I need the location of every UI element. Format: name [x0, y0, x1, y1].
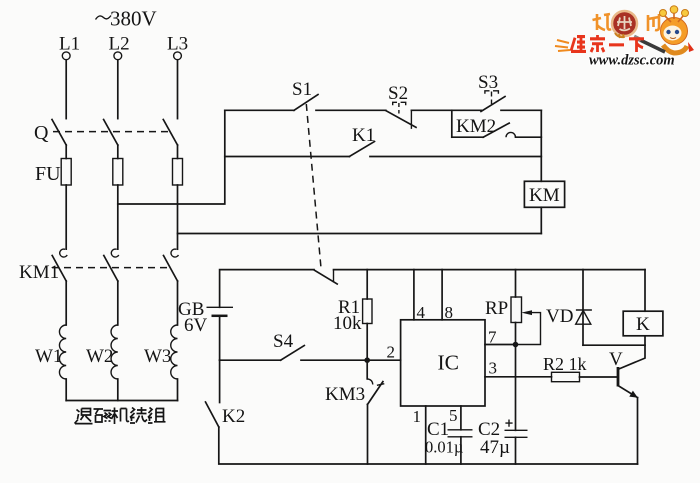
switch Q pole 1 blade — [52, 120, 66, 146]
winding W3 — [171, 325, 178, 379]
capacitor C2 polarity plus — [505, 420, 512, 427]
wire KM1 pole3 to W3 — [177, 281, 179, 325]
svg-text:3: 3 — [489, 359, 498, 378]
node ~380V supply label — [96, 16, 112, 20]
S1 linked contact blade — [314, 270, 337, 284]
ladder S1 row wire left — [225, 109, 294, 111]
wire winding common bus — [66, 400, 177, 402]
svg-text:8: 8 — [445, 303, 454, 322]
contactor KM1 pole1 fixed contact — [60, 249, 67, 257]
label demagnetizer winding (Chinese) — [75, 407, 166, 424]
svg-text:KM: KM — [529, 185, 560, 206]
contact KM3 fixed contact arc — [367, 379, 373, 385]
watermark magnifier with chip character — [612, 11, 637, 38]
wire top rail to K — [644, 270, 646, 312]
contact KM3 blade tick — [377, 384, 384, 386]
contact KM3 wire top — [366, 360, 368, 379]
wire S3 to right rail — [501, 109, 541, 111]
svg-text:6V: 6V — [184, 315, 208, 336]
wire battery to S4 row — [219, 316, 221, 360]
S1 linked contact fixed post — [333, 270, 335, 282]
potentiometer RP branch wire — [515, 270, 517, 297]
transistor V base bar — [617, 367, 620, 387]
watermark mascot — [634, 6, 694, 53]
diode VD branch wire — [582, 270, 584, 346]
svg-text:VD: VD — [546, 306, 573, 327]
wire W3 bottom — [177, 379, 179, 401]
node junction dot pin7/RP/C2 — [513, 342, 519, 348]
pin 8 wire — [441, 270, 443, 320]
battery box top rail left — [220, 270, 314, 308]
wire KM3 to bottom rail — [367, 404, 369, 464]
svg-text:K: K — [636, 314, 650, 335]
resistor R2 wire base — [580, 376, 618, 378]
wire KM2 branch left — [452, 136, 483, 138]
battery GB short plate — [212, 315, 228, 318]
svg-text:10k: 10k — [333, 313, 362, 334]
switch S4 blade — [281, 346, 305, 361]
wire KM1 pole1 to W1 — [65, 281, 67, 325]
svg-text:K2: K2 — [222, 406, 245, 427]
switch Q mechanical link dashed — [53, 131, 171, 133]
svg-text:W1: W1 — [35, 346, 62, 367]
svg-text:Q: Q — [34, 122, 49, 144]
wire K2 to bottom rail — [219, 427, 638, 464]
watermark 维库一下 (red) — [571, 35, 644, 52]
svg-text:L1: L1 — [59, 34, 80, 55]
relay contact K1 row wire left — [225, 156, 350, 158]
pin 3 wire — [485, 376, 552, 378]
svg-text:IC: IC — [438, 351, 460, 375]
svg-text:W2: W2 — [86, 346, 113, 367]
svg-text:V: V — [609, 349, 623, 370]
diode VD cathode bar — [576, 309, 592, 311]
wire R1 bottom to node — [366, 324, 368, 361]
switch K2 blade — [206, 402, 219, 427]
wire C2 to bottom rail — [515, 437, 517, 464]
contactor KM1 mechanical link dashed — [52, 267, 170, 269]
pushbutton S2 actuator dashed — [393, 102, 406, 105]
svg-text:S4: S4 — [273, 331, 294, 352]
potentiometer RP body — [511, 297, 522, 323]
wire control tap from L2 phase — [118, 110, 225, 204]
contact KM2 blade — [483, 123, 509, 137]
wire L1 down to Q — [65, 60, 67, 119]
fuse FU3 — [173, 159, 183, 186]
contactor KM1 pole3 blade — [164, 256, 178, 282]
watermark speed lines — [555, 40, 570, 51]
wire KM1 pole2 to W2 — [117, 281, 119, 325]
wire FU3 down to KM1 with tap — [177, 185, 179, 249]
battery GB long plate — [207, 306, 234, 308]
capacitor C1 plates — [448, 429, 473, 431]
svg-text:S3: S3 — [478, 72, 498, 93]
watermark logo 找芯片 (find chip) — [593, 14, 660, 31]
switch S1 blade — [294, 95, 318, 111]
contact KM2 fixed contact arc — [506, 132, 516, 137]
wire RP bottom to node — [515, 323, 517, 345]
resistor R2 — [552, 372, 580, 381]
pin 5 wire — [460, 406, 462, 430]
wire C1 to bottom rail — [460, 437, 462, 464]
pushbutton S3 actuator dashed — [485, 91, 499, 94]
svg-text:FU: FU — [35, 163, 61, 185]
contactor KM1 pole2 blade — [104, 256, 118, 282]
winding W1 — [59, 325, 66, 379]
svg-text:RP: RP — [485, 298, 508, 319]
pushbutton S2 blade — [386, 111, 416, 128]
svg-text:380V: 380V — [110, 7, 157, 31]
wire K to collector — [619, 336, 645, 369]
relay coil K box — [623, 311, 663, 336]
contactor KM1 pole3 fixed contact — [171, 249, 178, 257]
svg-text:S1: S1 — [292, 79, 312, 100]
svg-text:KM1: KM1 — [19, 262, 59, 283]
mechanical link S1 dashed to battery switch — [306, 104, 321, 268]
svg-text:47µ: 47µ — [480, 437, 510, 458]
capacitor C2 plates — [505, 429, 528, 431]
winding W2 — [111, 325, 118, 379]
svg-text:4: 4 — [417, 303, 426, 322]
svg-text:K1: K1 — [352, 125, 375, 146]
wire Q pole3 to FU3 — [177, 145, 179, 159]
resistor R1 — [363, 299, 372, 324]
svg-text:1: 1 — [413, 407, 422, 426]
svg-text:5: 5 — [449, 406, 458, 425]
svg-text:L2: L2 — [109, 34, 130, 55]
contactor KM1 pole1 blade — [52, 256, 66, 282]
svg-text:7: 7 — [488, 328, 497, 347]
svg-text:2: 2 — [387, 343, 396, 362]
switch Q pole 3 blade — [163, 120, 177, 146]
svg-text:KM3: KM3 — [325, 384, 365, 405]
potentiometer RP wiper arrow — [521, 310, 532, 315]
pin 7 wire — [485, 344, 516, 346]
wire W2 bottom — [117, 379, 119, 401]
wire FU2 down to KM1 with tap — [117, 185, 119, 249]
wire control return to L3 phase — [178, 233, 542, 235]
pushbutton S2 fixed post — [410, 111, 412, 129]
pushbutton S3 blade — [481, 97, 505, 112]
node junction dot S4/R1/KM3 — [364, 357, 370, 363]
switch Q pole 2 blade — [104, 120, 118, 146]
wire emitter to bottom rail — [637, 398, 639, 464]
switch S4 row wire left — [220, 359, 281, 361]
fuse FU1 — [61, 159, 71, 186]
wire right rail upper — [540, 110, 542, 181]
svg-text:0.01µ: 0.01µ — [425, 438, 463, 457]
wire S1 to S2 — [316, 109, 386, 111]
transistor V emitter — [619, 386, 638, 398]
wire S2 to S3 — [411, 109, 481, 111]
wire VD anode to collector node — [583, 344, 645, 346]
wire L3 down to Q — [177, 60, 179, 119]
pin 4 wire — [413, 270, 415, 320]
contactor KM1 pole2 fixed contact — [111, 249, 118, 257]
resistor R1 branch wire top — [366, 270, 368, 299]
svg-text:S2: S2 — [388, 83, 408, 104]
diode VD triangle — [576, 311, 591, 325]
wire Q pole2 to FU2 — [117, 145, 119, 159]
wire left rail S4 to K2 — [219, 360, 221, 402]
relay contact K1 blade — [349, 142, 374, 157]
wire L2 down to Q — [117, 60, 119, 119]
svg-text:www.dzsc.com: www.dzsc.com — [589, 53, 675, 69]
contactor coil KM box — [524, 181, 564, 207]
wire KM2 branch drop — [451, 110, 453, 137]
wire S4 to node 2 — [301, 359, 401, 361]
wire KM2 branch right — [516, 136, 542, 138]
fuse FU2 — [113, 159, 123, 186]
wire FU1 down to KM1 — [65, 185, 67, 249]
wire top rail of control box — [334, 269, 646, 271]
wire W1 bottom — [65, 379, 67, 401]
pin 1 wire — [425, 406, 427, 464]
IC U1 box — [401, 320, 485, 406]
wire KM coil to L3 return — [540, 207, 542, 233]
wire node to C2 — [515, 345, 517, 431]
wire K1 to right rail — [370, 156, 541, 158]
contact KM3 blade — [368, 382, 383, 405]
wire Q pole1 to FU1 — [65, 145, 67, 159]
svg-text:R2 1k: R2 1k — [543, 354, 587, 374]
svg-text:W3: W3 — [144, 346, 171, 367]
